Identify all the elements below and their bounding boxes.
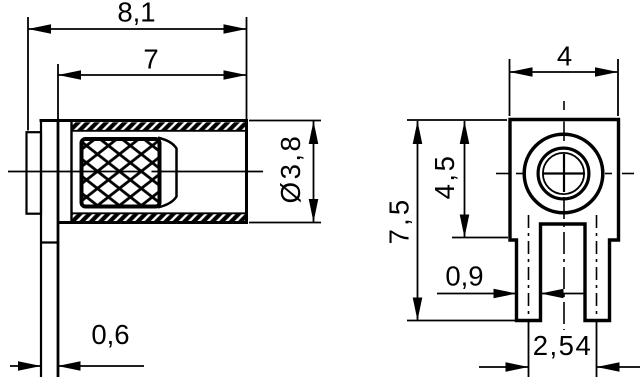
svg-text:7,5: 7,5	[384, 197, 415, 245]
svg-text:8,1: 8,1	[117, 0, 155, 28]
svg-text:4,5: 4,5	[429, 154, 460, 200]
svg-text:2,54: 2,54	[533, 330, 593, 361]
svg-text:Ø3,8: Ø3,8	[275, 134, 306, 204]
svg-text:7: 7	[143, 44, 158, 75]
svg-text:0,9: 0,9	[445, 261, 483, 292]
svg-text:4: 4	[557, 41, 572, 72]
svg-text:0,6: 0,6	[91, 319, 129, 350]
